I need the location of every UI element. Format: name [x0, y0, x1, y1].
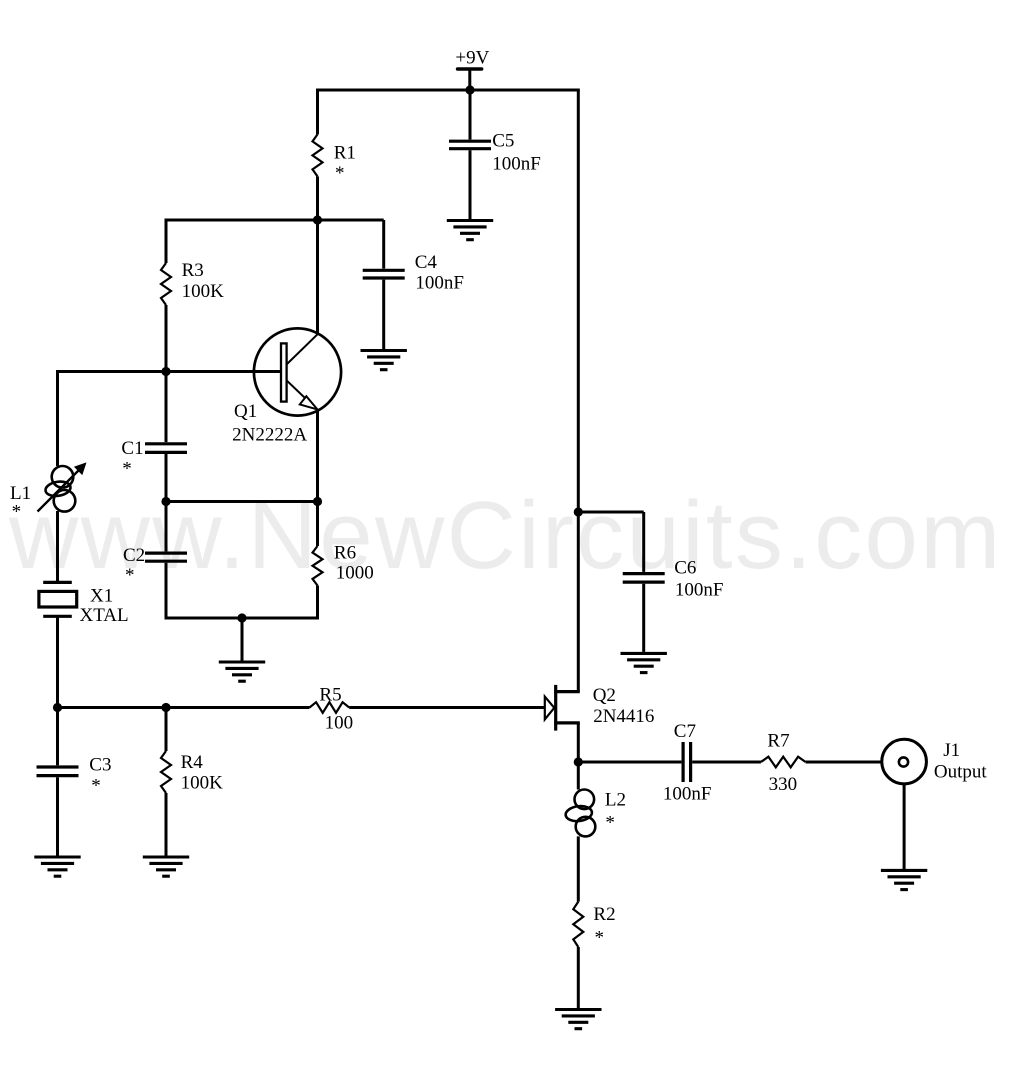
- wire Q1 base: [58, 370, 281, 373]
- wire R2 bottom: [577, 947, 580, 1008]
- resistor R2: [573, 902, 583, 947]
- wire Q2 source: [577, 723, 580, 763]
- connector J1 outer ring: [882, 739, 927, 784]
- wire R3 top: [165, 220, 168, 263]
- wire R3 bottom: [165, 305, 168, 372]
- capacitor C7 left plate: [681, 742, 684, 782]
- wire R6 top: [316, 502, 319, 547]
- wire C5 bottom: [469, 150, 472, 219]
- svg-text:2N2222A: 2N2222A: [232, 425, 307, 446]
- svg-text:R3: R3: [182, 260, 204, 281]
- capacitor C3: [37, 765, 79, 768]
- wire C4 top: [382, 220, 385, 269]
- capacitor C7: [663, 721, 712, 805]
- wire C6 top: [642, 512, 645, 572]
- wire rail2: [165, 219, 384, 222]
- wire top rail: [316, 89, 580, 92]
- svg-text:100K: 100K: [181, 772, 224, 793]
- inductor L1 adjustment arrow shaft: [38, 468, 82, 512]
- wire C1 bottom: [165, 454, 168, 502]
- inductor L2 bottom loop: [576, 817, 596, 837]
- transistor Q1 body circle: [254, 328, 341, 415]
- svg-text:100nF: 100nF: [675, 579, 724, 600]
- capacitor C4: [363, 269, 405, 272]
- capacitor C1: [145, 442, 187, 445]
- svg-text:*: *: [91, 776, 101, 797]
- wire drain rail: [577, 90, 580, 692]
- wire bottom rail right: [349, 706, 545, 709]
- resistor R5: [310, 702, 350, 713]
- wire C3 bottom: [56, 777, 59, 855]
- wire L2 to R2: [577, 836, 580, 901]
- inductor L2 top loop: [575, 790, 595, 810]
- svg-text:Q2: Q2: [593, 685, 616, 706]
- +9V power bar: [458, 67, 482, 71]
- crystal X1 body box: [39, 591, 77, 607]
- wire R4 bottom: [165, 793, 168, 856]
- svg-text:R6: R6: [334, 543, 356, 564]
- svg-text:100nF: 100nF: [415, 272, 464, 293]
- transistor Q2 channel bar: [554, 685, 557, 731]
- wire L1 to X1: [56, 511, 59, 581]
- transistor Q2 drain lead: [554, 690, 580, 693]
- svg-text:X1: X1: [90, 585, 113, 606]
- svg-text:C7: C7: [674, 721, 696, 742]
- inductor L1 (variable): [10, 462, 87, 522]
- svg-text:*: *: [122, 458, 132, 479]
- junction emitter R6: [313, 497, 322, 506]
- wire X1 down: [56, 616, 59, 709]
- svg-text:R7: R7: [767, 731, 789, 752]
- junction base R3 C1: [161, 367, 170, 376]
- crystal X1 top plate: [43, 581, 72, 584]
- resistor R4: [161, 751, 171, 793]
- junction ground tap: [237, 613, 246, 622]
- junction source output: [574, 757, 583, 766]
- wire R4 top: [165, 708, 168, 752]
- junction left rail: [53, 703, 62, 712]
- wire C6 bottom: [642, 584, 645, 652]
- svg-text:330: 330: [769, 774, 798, 795]
- capacitor C7 right plate: [689, 742, 692, 782]
- inductor L1 middle loop: [44, 480, 71, 498]
- wire source to C7: [578, 761, 681, 764]
- connector J1 center pin: [899, 757, 908, 766]
- ground R4: [143, 855, 189, 858]
- transistor Q1 base bar: [281, 343, 287, 401]
- junction C1 C2: [161, 497, 170, 506]
- svg-text:XTAL: XTAL: [80, 605, 129, 626]
- svg-text:C3: C3: [89, 755, 111, 776]
- svg-text:C4: C4: [415, 252, 438, 273]
- svg-text:*: *: [12, 502, 22, 523]
- svg-text:R5: R5: [319, 684, 341, 705]
- wire R1 bottom: [316, 176, 319, 221]
- wire C2 top: [165, 502, 168, 552]
- svg-text:C2: C2: [123, 545, 145, 566]
- transistor Q1 collector lead: [287, 334, 318, 364]
- svg-text:C6: C6: [674, 557, 696, 578]
- wire C1 top: [165, 372, 168, 443]
- ground C6: [621, 652, 667, 655]
- wire C7 to R7: [692, 761, 761, 764]
- transistor Q2 source lead: [554, 721, 580, 724]
- inductor L1 top loop: [52, 466, 74, 488]
- junction R1 rail2: [313, 215, 322, 224]
- wire Q1 emitter: [316, 409, 319, 502]
- resistor R3: [161, 263, 171, 305]
- ground C5: [447, 219, 493, 222]
- svg-text:R1: R1: [334, 142, 356, 163]
- svg-text:R4: R4: [181, 752, 204, 773]
- wire C6 tap: [578, 511, 643, 514]
- wire R1 top: [316, 90, 319, 134]
- wire R7 to J1: [806, 761, 883, 764]
- ground R2: [555, 1008, 601, 1011]
- svg-text:2N4416: 2N4416: [593, 706, 654, 727]
- svg-text:*: *: [125, 565, 135, 586]
- svg-text:+9V: +9V: [455, 47, 489, 68]
- svg-text:100nF: 100nF: [492, 153, 541, 174]
- transistor Q1: [232, 328, 341, 445]
- wire C2 R6 bottom: [165, 617, 320, 620]
- svg-text:1000: 1000: [336, 562, 374, 583]
- wire C2 bottom: [165, 563, 168, 618]
- wire C1 R6 link: [166, 500, 318, 503]
- capacitor C5: [449, 140, 491, 143]
- resistor R6: [313, 546, 323, 586]
- wire R6 bottom: [316, 586, 319, 619]
- wire left drop: [56, 370, 59, 466]
- wire ground stem mid: [241, 618, 244, 661]
- resistor R1: [313, 134, 323, 176]
- capacitor C6: [623, 572, 665, 575]
- svg-text:L2: L2: [605, 790, 626, 811]
- svg-text:C1: C1: [121, 438, 143, 459]
- svg-text:J1: J1: [943, 740, 960, 761]
- svg-text:C5: C5: [492, 131, 514, 152]
- junction +9V rail: [465, 85, 474, 94]
- svg-text:100: 100: [325, 713, 354, 734]
- transistor Q2 gate arrow: [545, 697, 555, 720]
- wire C3 top: [56, 708, 59, 766]
- svg-text:www.NewCircuits.com: www.NewCircuits.com: [8, 482, 1003, 589]
- svg-text:*: *: [595, 928, 605, 949]
- svg-text:Q1: Q1: [234, 401, 257, 422]
- svg-text:100nF: 100nF: [663, 783, 712, 804]
- wire +9V stem: [468, 69, 471, 91]
- ground C3: [34, 855, 80, 858]
- resistor R7: [761, 757, 806, 768]
- svg-text:Output: Output: [934, 762, 988, 783]
- wire Q1 collector: [316, 220, 319, 335]
- inductor L2 middle loop: [565, 805, 593, 823]
- transistor Q1 emitter lead: [287, 381, 317, 409]
- crystal X1: [39, 582, 129, 625]
- transistor Q1 emitter arrow: [300, 396, 318, 409]
- connector J1: [882, 739, 988, 784]
- inductor L1 bottom loop: [54, 490, 76, 512]
- wire bottom rail left: [58, 706, 310, 709]
- wire J1 ground stem: [903, 784, 906, 869]
- junction R4 rail: [161, 703, 170, 712]
- inductor L1 adjustment arrow head: [74, 462, 87, 475]
- inductor L2: [565, 790, 626, 837]
- svg-text:R2: R2: [593, 904, 615, 925]
- wire C4 bottom: [382, 280, 385, 349]
- capacitor C2: [145, 551, 187, 554]
- ground C2 R6: [219, 660, 265, 663]
- junction C6 tap: [574, 507, 583, 516]
- transistor Q2 JFET: [545, 685, 655, 731]
- svg-text:*: *: [335, 163, 345, 184]
- crystal X1 bottom plate: [43, 615, 72, 618]
- ground C4: [361, 349, 407, 352]
- svg-text:*: *: [605, 813, 615, 834]
- wire output to L2: [577, 762, 580, 790]
- wire C5 top: [469, 90, 472, 140]
- svg-text:100K: 100K: [182, 281, 225, 302]
- ground J1: [881, 869, 927, 872]
